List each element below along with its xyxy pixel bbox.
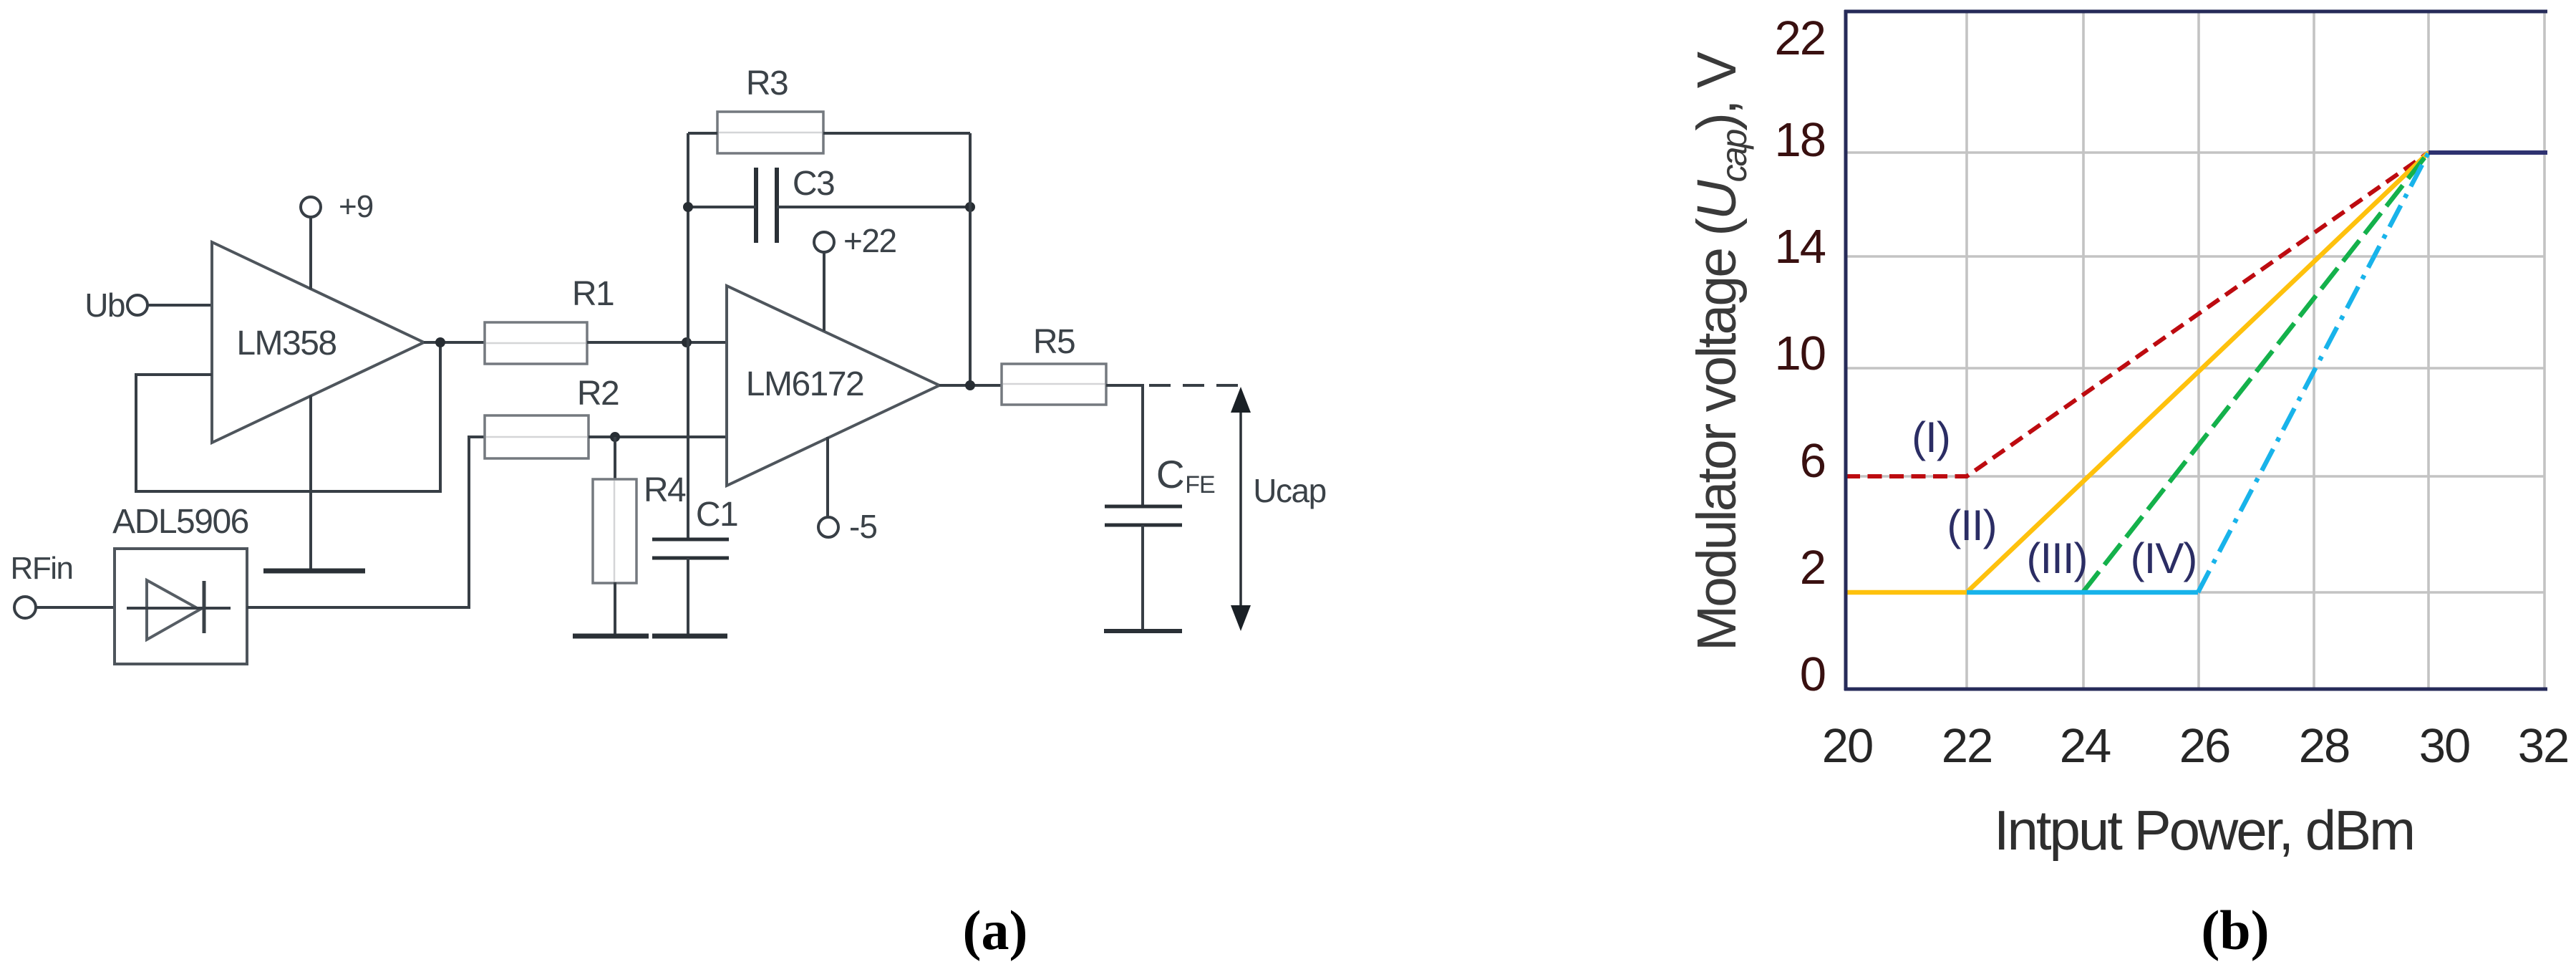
axis frame left border bbox=[1844, 10, 1848, 690]
power terminal +22 bbox=[814, 222, 896, 259]
gridline x 26 bbox=[2197, 11, 2200, 689]
node R2/R4 junction bbox=[610, 432, 620, 442]
wire CFE to ground bbox=[1141, 525, 1144, 631]
gridline y 14 bbox=[1846, 255, 2544, 258]
node C3 right junction bbox=[965, 202, 975, 212]
wire LM358 V- pin to ground bbox=[309, 395, 312, 571]
svg-text:LM6172: LM6172 bbox=[746, 365, 863, 403]
gridline y 6 bbox=[1846, 475, 2544, 478]
svg-text:22: 22 bbox=[1942, 719, 1992, 773]
measurement arrow Ucap bbox=[1231, 387, 1326, 631]
resistor R5 bbox=[1002, 323, 1106, 405]
wire C3 left bbox=[688, 206, 756, 208]
wire R5 to CFE bbox=[1106, 385, 1143, 506]
svg-text:R4: R4 bbox=[644, 471, 686, 509]
ground below C1 bbox=[652, 634, 727, 639]
svg-text:0: 0 bbox=[1800, 648, 1825, 701]
svg-text:28: 28 bbox=[2299, 719, 2350, 773]
svg-text:LM358: LM358 bbox=[236, 324, 336, 362]
svg-text:-5: -5 bbox=[849, 508, 877, 545]
wire C1 to ground bbox=[687, 558, 689, 636]
gridline y 2 bbox=[1846, 591, 2544, 594]
op-amp U1 LM358 bbox=[212, 242, 424, 443]
wire RFin to ADL5906 bbox=[36, 606, 115, 609]
svg-text:24: 24 bbox=[2060, 719, 2111, 773]
diode inside ADL5906 bbox=[127, 580, 231, 640]
svg-text:C3: C3 bbox=[793, 165, 834, 203]
gridline x 24 bbox=[2082, 11, 2085, 689]
wire feedback node vertical R3/C3 to C1 bbox=[687, 133, 689, 539]
wire LM358 feedback loop output to inverting input bbox=[136, 342, 440, 491]
svg-text:(I): (I) bbox=[1912, 413, 1950, 461]
svg-text:C: C bbox=[1156, 452, 1183, 496]
svg-text:22: 22 bbox=[1774, 11, 1825, 65]
axis frame top border bbox=[1844, 10, 2547, 14]
wire ADL5906 output to R2 bbox=[247, 437, 485, 607]
wire LM6172 output to R5 bbox=[939, 384, 1002, 387]
resistor R2 bbox=[485, 375, 619, 458]
chart panel (b) bbox=[1686, 10, 2568, 862]
wire +9 to LM358 V+ pin bbox=[309, 217, 312, 289]
wire R3 right to output node bbox=[823, 132, 970, 135]
svg-text:R2: R2 bbox=[577, 375, 619, 413]
svg-text:Intput Power, dBm: Intput Power, dBm bbox=[1994, 799, 2413, 862]
gridline x 28 bbox=[2313, 11, 2315, 689]
svg-text:14: 14 bbox=[1774, 220, 1825, 274]
capacitor C1 bbox=[652, 496, 737, 558]
wire R2 to LM6172 inverting input bbox=[589, 436, 728, 438]
svg-text:C1: C1 bbox=[696, 496, 737, 534]
gridline y 18 bbox=[1846, 151, 2544, 154]
svg-text:R1: R1 bbox=[572, 275, 614, 313]
resistor R3 bbox=[717, 64, 823, 153]
resistor R1 bbox=[485, 275, 614, 364]
svg-text:Modulator voltage (Ucap), V: Modulator voltage (Ucap), V bbox=[1686, 51, 1754, 651]
node C3 left junction bbox=[683, 202, 693, 212]
node Ub input terminal bbox=[84, 287, 147, 324]
wire C3 right bbox=[777, 206, 970, 208]
curve IV cyan dash-dot rising part bbox=[2198, 153, 2429, 592]
detector U3 ADL5906 bbox=[112, 503, 248, 664]
curve IV cyan dash-dot flat part bbox=[1967, 590, 2198, 595]
gridline x 22 bbox=[1965, 11, 1968, 689]
svg-text:30: 30 bbox=[2419, 719, 2470, 773]
svg-text:(b): (b) bbox=[2201, 899, 2269, 961]
svg-text:10: 10 bbox=[1774, 327, 1825, 380]
wire R4 to ground bbox=[614, 582, 616, 636]
gridline x 30 bbox=[2427, 11, 2430, 689]
svg-text:26: 26 bbox=[2179, 719, 2230, 773]
svg-text:Ucap: Ucap bbox=[1253, 472, 1325, 509]
svg-text:(III): (III) bbox=[2027, 534, 2088, 582]
node R1 output junction bbox=[682, 337, 692, 347]
op-amp U2 LM6172 bbox=[727, 286, 939, 486]
svg-text:20: 20 bbox=[1822, 719, 1873, 773]
svg-text:2: 2 bbox=[1800, 541, 1825, 595]
svg-text:FE: FE bbox=[1185, 471, 1215, 499]
svg-text:18: 18 bbox=[1774, 113, 1825, 167]
ground below R4 bbox=[573, 634, 649, 639]
node LM358 output junction bbox=[435, 337, 445, 347]
power terminal +9 bbox=[301, 189, 373, 224]
ground below LM358 bbox=[263, 569, 365, 574]
svg-text:ADL5906: ADL5906 bbox=[112, 503, 248, 541]
wire R1 to LM6172 non-inverting input bbox=[587, 341, 728, 344]
capacitor CFE bbox=[1105, 452, 1215, 525]
svg-text:(IV): (IV) bbox=[2131, 534, 2197, 582]
gridline y 10 bbox=[1846, 367, 2544, 370]
wire -5 to LM6172 V- pin bbox=[826, 437, 829, 517]
svg-text:R3: R3 bbox=[746, 64, 788, 102]
svg-text:+22: +22 bbox=[843, 222, 896, 259]
wire LM358 output to R1 bbox=[424, 341, 485, 344]
ground below CFE bbox=[1104, 629, 1182, 633]
svg-text:Ub: Ub bbox=[84, 287, 125, 324]
wire junction to R4 bbox=[614, 437, 616, 480]
wire R3 left bbox=[688, 132, 717, 135]
node LM6172 output junction bbox=[965, 380, 975, 390]
wire dashed output stub bbox=[1149, 384, 1246, 387]
svg-text:(a): (a) bbox=[963, 899, 1028, 961]
wire Ub to LM358 non-inverting input bbox=[147, 304, 213, 307]
curve I dark red dashed bbox=[1846, 153, 2429, 476]
curve III green dashed bbox=[2083, 153, 2429, 592]
wire +22 to LM6172 V+ pin bbox=[823, 252, 825, 331]
power terminal -5 bbox=[818, 508, 877, 545]
wire feedback right vertical to output bbox=[969, 133, 972, 385]
curve II yellow solid bbox=[1846, 153, 2429, 592]
capacitor C3 bbox=[756, 165, 834, 243]
svg-text:6: 6 bbox=[1800, 434, 1825, 488]
curve saturation navy flat 18V bbox=[2429, 150, 2547, 155]
axis frame bottom border bbox=[1844, 688, 2547, 691]
svg-text:RFin: RFin bbox=[11, 551, 73, 586]
gridline x 32 bbox=[2543, 11, 2546, 689]
input terminal RFin bbox=[11, 551, 73, 618]
svg-text:32: 32 bbox=[2518, 719, 2569, 773]
svg-text:R5: R5 bbox=[1033, 323, 1075, 361]
resistor R4 bbox=[593, 471, 686, 583]
svg-text:(II): (II) bbox=[1947, 501, 1996, 549]
svg-text:+9: +9 bbox=[339, 189, 373, 224]
